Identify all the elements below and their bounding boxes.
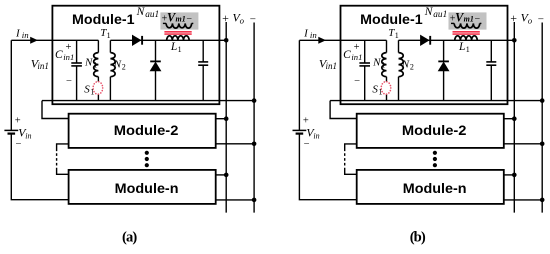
svg-text:au1: au1 (433, 10, 447, 20)
svg-text:in1: in1 (351, 52, 362, 62)
wire: outer - output rail (a) (253, 23, 255, 213)
wire: Module-2 lower-right output to - rail (a) (216, 143, 254, 145)
svg-text:−: − (250, 13, 256, 25)
svg-text:m1: m1 (464, 14, 474, 23)
svg-text:S: S (372, 84, 378, 96)
wire: outer - output rail (b) (541, 23, 543, 213)
wire: Module-1 bottom rail, exits left and right (a) (42, 100, 254, 102)
svg-text:L: L (170, 41, 177, 53)
auxiliary winding Nau1 highlight box with Vm1 (a) (160, 12, 198, 29)
node: Module-1 - output junction (a) (252, 98, 257, 103)
wire: dashed series-input link Module-2 to Module-n (b) (344, 149, 346, 169)
module box Module-2 (a) (69, 114, 216, 148)
svg-text:L: L (458, 41, 465, 53)
coupled-core marks (red) between Nau1 and L1 (b) (453, 31, 480, 33)
wire: Module-2 lower-left stub to dashed chain (b) (345, 144, 357, 149)
ellipsis dots between Module-2 and Module-n (b) (433, 151, 437, 155)
capacitor output Co (a) (202, 40, 204, 100)
module box Module-n (a) (69, 170, 216, 204)
switch S1 with red dotted highlight (a) (97, 94, 99, 100)
arrow Iin current direction (a) (30, 37, 38, 44)
wire: battery - down and right to Module-n lower-left input (b) (299, 134, 356, 200)
inductor winding Nau1 coil (a) (163, 22, 166, 24)
svg-text:−: − (66, 76, 72, 87)
svg-text:1: 1 (379, 87, 383, 96)
transformer T1 primary winding N1 (b) (386, 40, 388, 52)
transformer T1 primary winding N1 (a) (97, 40, 99, 52)
svg-text:N: N (424, 6, 434, 18)
svg-text:C: C (343, 49, 351, 61)
node: Module-n - output junction (a) (252, 198, 257, 203)
wire: Module-2 upper-right output to + rail (a) (216, 118, 227, 120)
wire: dashed series-input link Module-2 to Module-n (a) (56, 149, 58, 169)
wire: output top from N2 through D1, L1 to + rail (a) (110, 39, 226, 41)
inductor winding Nau1 coil (b) (451, 22, 454, 24)
node: Module-1 + output junction (b) (512, 38, 517, 43)
svg-text:1: 1 (381, 60, 385, 69)
inductor L1 (b) (455, 36, 477, 41)
node: Module-2 - output junction (b) (540, 142, 545, 147)
svg-text:−: − (354, 76, 360, 87)
wire: Module-n lower-right output to - rail (b) (504, 199, 542, 201)
module box Module-1 (a) (52, 6, 219, 105)
svg-text:in1: in1 (326, 61, 338, 71)
svg-text:C: C (55, 49, 63, 61)
transformer T1 secondary winding N2 (b) (398, 40, 400, 52)
svg-text:o: o (240, 16, 245, 26)
svg-text:N: N (113, 59, 122, 71)
svg-text:S: S (84, 84, 90, 96)
auxiliary winding Nau1 highlight box with Vm1 (b) (449, 12, 487, 29)
wire: battery - down and right to Module-n lower-left input (a) (11, 134, 68, 200)
svg-text:Module-2: Module-2 (114, 123, 179, 138)
svg-text:Module-2: Module-2 (402, 123, 467, 138)
node: Module-2 - output junction (a) (252, 142, 257, 147)
battery Vin (b) (293, 129, 307, 131)
svg-text:N: N (372, 57, 381, 69)
diode D1 series output (a) (132, 35, 140, 45)
wire: Module-2 lower-right output to - rail (b) (504, 143, 542, 145)
svg-text:N: N (136, 6, 146, 18)
svg-text:1: 1 (107, 31, 111, 40)
wire: inner + output rail (b) (513, 22, 515, 213)
wire: Module-2 upper-right output to + rail (b) (504, 118, 515, 120)
inductor L1 (a) (167, 36, 189, 41)
coupled-core marks (red) between Nau1 and L1 (a) (164, 31, 191, 33)
svg-text:−: − (16, 139, 22, 150)
svg-text:in1: in1 (37, 61, 49, 71)
node: Module-n + output junction (b) (512, 173, 517, 178)
svg-text:(a): (a) (122, 229, 137, 245)
svg-text:Module-1: Module-1 (360, 12, 423, 27)
svg-text:1: 1 (466, 45, 470, 54)
svg-text:Module-1: Module-1 (72, 12, 135, 27)
capacitor output Co (b) (490, 40, 492, 100)
svg-text:m1: m1 (176, 14, 186, 23)
node: Module-1 + output junction (a) (224, 38, 229, 43)
wire: Module-1 bottom rail, exits left and right (b) (330, 100, 542, 102)
wire: input top rail from source to N1 (a) (11, 39, 98, 41)
module box Module-n (b) (357, 170, 504, 204)
svg-text:+: + (222, 11, 229, 25)
node: Module-1 - output junction (b) (540, 98, 545, 103)
svg-text:2: 2 (410, 62, 414, 71)
switch S1 with red dotted highlight (b) (386, 94, 388, 100)
node: Module-n - output junction (b) (540, 198, 545, 203)
transformer T1 secondary winding N2 (a) (109, 40, 111, 52)
module box Module-1 (b) (341, 6, 508, 105)
svg-text:+: + (510, 11, 517, 25)
svg-text:2: 2 (122, 62, 126, 71)
svg-text:N: N (84, 57, 93, 69)
ellipsis dots between Module-2 and Module-n (a) (145, 151, 149, 155)
wire: left vertical from top rail to battery + (b) (298, 40, 300, 130)
wire: Module-n upper-right output to + rail (a) (216, 174, 227, 176)
svg-text:1: 1 (90, 87, 94, 96)
node: Module-n + output junction (a) (224, 173, 229, 178)
wire: Module-1 bottom to Module-2 upper-left input (a) (42, 101, 69, 119)
diode D1 series output (b) (421, 35, 429, 45)
battery Vin (a) (4, 129, 18, 131)
wire: Module-1 bottom to Module-2 upper-left input (b) (330, 101, 357, 119)
wire: Module-n lower-right output to - rail (a) (216, 199, 254, 201)
node: Module-2 + output junction (b) (512, 116, 517, 121)
svg-text:1: 1 (395, 31, 399, 40)
wire: inner + output rail (a) (225, 22, 227, 213)
capacitor Cin1 (a) (76, 40, 78, 100)
diode D2 freewheeling (a) (155, 40, 157, 100)
wire: output top from N2 through D1, L1 to + rail (b) (399, 39, 515, 41)
module box Module-2 (b) (357, 114, 504, 148)
wire: Module-2 lower-left stub to dashed chain (a) (57, 144, 69, 149)
svg-text:Module-n: Module-n (403, 181, 467, 196)
wire: input top rail from source to N1 (b) (299, 39, 386, 41)
svg-text:in1: in1 (63, 52, 74, 62)
svg-text:in: in (22, 30, 29, 40)
svg-text:in: in (25, 131, 31, 140)
diode D2 freewheeling (b) (443, 40, 445, 100)
arrow Iin current direction (b) (318, 37, 326, 44)
svg-text:N: N (401, 59, 410, 71)
wire: dashed chain to Module-n upper-left input (a) (57, 168, 69, 174)
wire: left vertical from top rail to battery + (a) (10, 40, 12, 130)
wire: dashed chain to Module-n upper-left input (b) (345, 168, 357, 174)
svg-text:(b): (b) (410, 229, 426, 245)
svg-text:1: 1 (178, 45, 182, 54)
svg-text:1: 1 (93, 60, 97, 69)
svg-text:−: − (538, 13, 544, 25)
capacitor Cin1 (b) (364, 40, 366, 100)
svg-text:−: − (304, 139, 310, 150)
svg-text:in: in (313, 131, 319, 140)
svg-text:Module-n: Module-n (115, 181, 179, 196)
wire: Module-n upper-right output to + rail (b) (504, 174, 515, 176)
svg-text:au1: au1 (145, 10, 159, 20)
svg-text:o: o (528, 16, 533, 26)
svg-text:in: in (310, 30, 317, 40)
node: Module-2 + output junction (a) (224, 116, 229, 121)
